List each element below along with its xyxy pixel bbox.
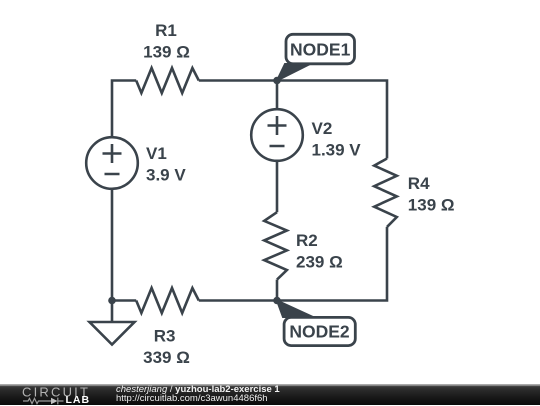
wire top-left corner + left rail upper [112,81,136,138]
voltage source V2 [251,109,303,161]
ground [90,322,135,345]
svg-text:V1: V1 [146,144,167,163]
footer bar [0,384,540,406]
label R2 value [296,231,343,272]
wire middle branch lower [276,280,279,301]
label R1 value [143,21,190,62]
junction dot node 2 [273,297,281,305]
wire middle branch upper [276,81,279,110]
junction dot ground node [108,297,116,305]
svg-text:V2: V2 [312,119,333,138]
svg-text:NODE2: NODE2 [289,322,350,342]
svg-text:139 Ω: 139 Ω [143,43,190,62]
svg-text:LAB: LAB [66,394,91,406]
footer line 2 [116,394,268,404]
svg-text:NODE1: NODE1 [290,40,351,60]
resistor R1 [136,68,199,93]
node NODE1 callout [277,34,355,80]
svg-text:R4: R4 [408,174,430,193]
wire ground stem [111,301,114,323]
label V1 value [146,144,186,185]
CircuitLab logo [0,384,110,406]
svg-text:R3: R3 [154,327,176,346]
resistor R3 [136,288,199,313]
resistor R2 [264,212,287,279]
svg-text:239 Ω: 239 Ω [296,253,343,272]
svg-text:139 Ω: 139 Ω [408,196,455,215]
svg-text:1.39 V: 1.39 V [312,141,362,160]
resistor R4 [374,159,397,227]
svg-text:3.9 V: 3.9 V [146,166,186,185]
label R4 value [408,174,455,215]
svg-text:339 Ω: 339 Ω [143,348,190,367]
wire top rail right segment + right rail upper [199,81,387,159]
svg-text:R2: R2 [296,231,318,250]
node NODE2 callout [277,301,355,346]
footer line 1 [116,385,280,395]
voltage source V1 [86,137,138,189]
wire middle branch between V2 and R2 [276,161,279,212]
label V2 value [312,119,362,160]
wire right rail lower + bottom-right corner [199,227,387,301]
wire left rail lower [111,189,114,301]
svg-text:R1: R1 [155,21,177,40]
junction dot node 1 [273,77,281,85]
label R3 value [143,327,190,368]
wire bottom rail left lead [112,299,136,302]
